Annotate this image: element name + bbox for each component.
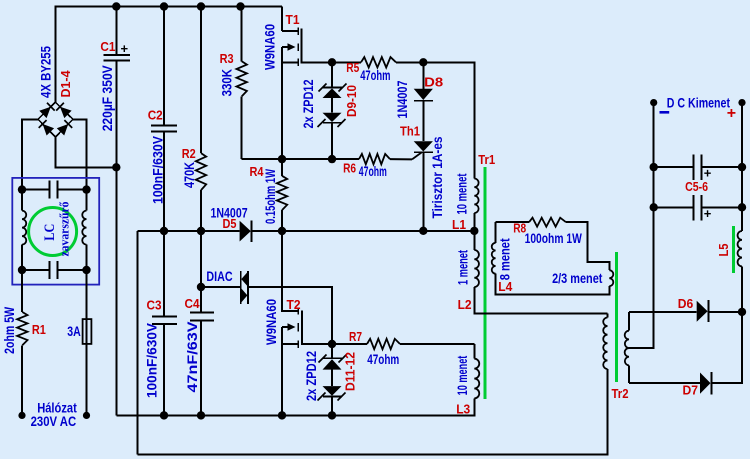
wire C4 bottom — [200, 321, 202, 416]
svg-text:zavarszűrő: zavarszűrő — [58, 202, 72, 257]
node C5 right — [738, 163, 746, 171]
transistor T2 gate lead — [282, 326, 288, 328]
node rail-C1 — [112, 2, 120, 10]
node rail-R3 — [236, 2, 244, 10]
wire C1 bottom — [115, 62, 117, 168]
capacitor C2 — [151, 125, 177, 127]
terminal DC plus — [738, 99, 745, 106]
svg-text:R3: R3 — [220, 51, 234, 66]
wire R2 top — [200, 7, 202, 154]
svg-text:LC: LC — [42, 224, 58, 241]
wire L2 bottom — [474, 287, 607, 314]
wire D12 bottom — [331, 396, 333, 415]
node C3/bottom rail — [160, 411, 168, 419]
resistor R2 — [196, 153, 206, 190]
wire D8 top lead — [422, 62, 424, 89]
capacitor C4 — [190, 312, 214, 314]
node R2/D5 wire — [197, 227, 205, 235]
svg-text:220µF 350V: 220µF 350V — [99, 65, 115, 132]
resistor R1 — [17, 312, 27, 345]
svg-text:C3: C3 — [147, 298, 162, 313]
transistor T1 drain lead — [282, 30, 298, 32]
svg-text:4X BY255: 4X BY255 — [38, 46, 54, 98]
svg-text:100ohm 1W: 100ohm 1W — [525, 230, 583, 246]
wire C2 bottom — [163, 132, 165, 232]
wire L2 top — [473, 231, 475, 250]
bridge rectifier D1-4 diamond — [38, 102, 73, 137]
wire bridge right lead — [73, 118, 87, 120]
node R4 bottom — [278, 227, 286, 235]
node rail-C2 — [160, 2, 168, 10]
resistor R5 — [361, 57, 396, 67]
svg-text:D8: D8 — [424, 75, 443, 90]
node R7 junction — [328, 340, 336, 348]
wire down from D5 row — [137, 231, 139, 455]
zener diode D12 — [323, 386, 342, 396]
svg-text:1N4007: 1N4007 — [394, 80, 410, 118]
wire C2 top — [163, 7, 165, 126]
svg-text:L5: L5 — [716, 244, 731, 257]
diode D8 — [414, 89, 433, 100]
wire left vertical to bottom rail — [115, 167, 117, 415]
capacitor C6 — [654, 206, 694, 208]
LC filter box — [12, 178, 99, 285]
wire top rail — [55, 6, 282, 8]
wire fuse bottom — [86, 344, 88, 416]
node C1/bridge junction — [112, 163, 120, 171]
node R4 top — [278, 155, 286, 163]
wire zener D10 bottom — [331, 123, 333, 159]
wire D5 row left — [138, 230, 240, 232]
wire D6 anode — [629, 311, 697, 313]
capacitor C5 — [654, 166, 694, 168]
wire Th1 gate — [412, 153, 422, 160]
resistor R4 — [277, 176, 287, 210]
wire zener middle 2 — [331, 370, 333, 387]
wire L3 top lead — [473, 344, 475, 359]
wire R2-DIAC — [200, 231, 202, 287]
capacitor LC top — [22, 189, 50, 191]
thyristor Th1 — [414, 141, 433, 151]
svg-text:100nF/630V: 100nF/630V — [144, 322, 160, 398]
wire bottom rail 2 — [138, 369, 608, 455]
wire R4 leads — [281, 159, 283, 176]
wire loop top — [496, 221, 529, 223]
node T2/bottom rail — [278, 411, 286, 419]
node C2/D5 wire — [160, 227, 168, 235]
node zener bottom — [328, 155, 336, 163]
inductor LC right — [82, 211, 86, 245]
svg-text:47ohm: 47ohm — [360, 67, 390, 83]
svg-text:2ohm 5W: 2ohm 5W — [1, 306, 17, 354]
svg-text:C4: C4 — [185, 296, 201, 311]
svg-text:8 menet: 8 menet — [497, 238, 513, 280]
svg-text:+: + — [121, 41, 129, 56]
transistor T1 source lead — [282, 61, 298, 63]
svg-text:47ohm: 47ohm — [359, 163, 387, 179]
wire bridge top lead — [54, 6, 56, 103]
label minus sign — [660, 111, 670, 114]
fuse 3A — [83, 319, 92, 344]
transistor T2 drain lead — [281, 310, 297, 312]
wire T2 source to R7 — [332, 343, 367, 345]
node D6 output — [738, 308, 746, 316]
resistor R7 — [367, 339, 400, 349]
wire R5 to D8 — [396, 61, 423, 63]
transformer core Tr2 — [615, 252, 618, 382]
svg-text:L3: L3 — [456, 402, 470, 417]
node DIAC tee — [197, 283, 205, 291]
svg-text:Tr2: Tr2 — [612, 386, 629, 401]
wire LC to R1 — [21, 270, 23, 312]
svg-text:D7: D7 — [683, 383, 699, 398]
wire D6 cathode — [708, 311, 742, 313]
node LC bottom-left — [18, 266, 26, 274]
diode D6 — [697, 301, 708, 322]
svg-text:C5-6: C5-6 — [685, 179, 708, 194]
node LC top-left — [18, 185, 26, 193]
node LC top-right — [82, 185, 90, 193]
svg-text:D5: D5 — [223, 216, 237, 231]
inductor L4 — [492, 243, 496, 274]
svg-text:10 menet: 10 menet — [454, 173, 470, 214]
svg-text:47ohm: 47ohm — [367, 351, 399, 367]
wire R3 bottom — [241, 96, 243, 159]
wire D11 top — [331, 344, 333, 358]
svg-text:R2: R2 — [182, 146, 196, 161]
svg-text:2/3 menet: 2/3 menet — [552, 270, 603, 286]
inductor core L5 — [732, 226, 735, 273]
svg-text:10 menet: 10 menet — [454, 355, 470, 395]
resistor R8 — [529, 218, 566, 227]
terminal mains left — [18, 412, 25, 419]
zener diode D9 — [323, 86, 342, 88]
diode D4 (bridge lower-right) — [57, 124, 69, 136]
wire R1 bottom — [21, 345, 23, 415]
svg-text:3A: 3A — [67, 323, 81, 339]
svg-text:+: + — [704, 206, 712, 221]
wire R2 bottom — [200, 190, 202, 231]
wire C3 top — [163, 231, 165, 316]
diode D2 (bridge upper-right) — [60, 107, 72, 118]
svg-text:D1-4: D1-4 — [58, 70, 73, 98]
svg-text:D9-10: D9-10 — [344, 85, 359, 117]
node LC bottom-right — [82, 266, 90, 274]
svg-text:1 menet: 1 menet — [454, 250, 470, 285]
wire R7 to L3 — [400, 343, 474, 345]
diode D5 — [240, 221, 251, 242]
capacitor C3 — [152, 315, 177, 317]
svg-text:470K: 470K — [181, 162, 197, 188]
node D12 bottom rail — [328, 411, 336, 419]
node C6 left — [650, 203, 658, 211]
resistor R3 — [237, 61, 247, 96]
wire DIAC right — [248, 287, 332, 344]
wire R6 right — [390, 158, 412, 160]
svg-text:D11-12: D11-12 — [343, 352, 358, 391]
wire D8-Th1 — [422, 101, 424, 142]
inductor Tr2 primary — [603, 318, 607, 370]
wire LC to fuse — [86, 270, 88, 319]
inductor L3 — [474, 359, 479, 399]
inductor L5 — [738, 231, 742, 266]
svg-text:W9NA60: W9NA60 — [261, 24, 277, 70]
wire zener middle — [331, 98, 333, 113]
wire L3 bottom — [116, 398, 474, 415]
transistor T1 gate lead — [282, 46, 288, 48]
zener diode D10 — [323, 113, 342, 122]
winding 2/3 menet — [609, 270, 613, 286]
svg-text:T1: T1 — [286, 12, 300, 27]
wire C1 top — [115, 7, 117, 55]
node C6 right — [738, 203, 746, 211]
wire output minus rail — [629, 103, 654, 348]
svg-text:2x ZPD12: 2x ZPD12 — [303, 351, 319, 401]
wire to L1 top — [423, 62, 474, 178]
node C5 left — [650, 163, 658, 171]
wire Th1 cathode — [422, 152, 424, 231]
svg-text:Tr1: Tr1 — [478, 152, 495, 167]
capacitor C1 — [104, 54, 130, 56]
svg-text:T2: T2 — [287, 297, 301, 312]
terminal mains right — [83, 412, 90, 419]
svg-text:0.15ohm 1W: 0.15ohm 1W — [262, 168, 278, 224]
inductor LC left — [22, 211, 26, 245]
svg-text:R5: R5 — [346, 60, 359, 75]
diode D7 — [700, 373, 711, 394]
wire output plus rail — [741, 103, 743, 231]
wire R4 row left — [282, 158, 359, 160]
svg-text:W9NA60: W9NA60 — [263, 299, 279, 345]
svg-text:47nF/63V: 47nF/63V — [184, 321, 200, 393]
diode D3 (bridge lower-left) — [43, 124, 55, 136]
transistor T1 channel — [302, 29, 333, 63]
node L1-L2 junction — [470, 227, 478, 235]
svg-text:R7: R7 — [349, 329, 362, 344]
wire D7 anode — [629, 382, 700, 384]
wire bridge bottom lead — [55, 136, 116, 167]
wire L1 bottom — [473, 213, 475, 231]
wire Tr2 center tap — [629, 347, 655, 349]
terminal DC minus — [650, 99, 657, 106]
wire T1 source to R5 — [332, 61, 361, 63]
wire DIAC left — [201, 286, 241, 288]
svg-text:D C Kimenet: D C Kimenet — [667, 94, 730, 110]
svg-text:Th1: Th1 — [400, 124, 420, 139]
svg-text:2x ZPD12: 2x ZPD12 — [300, 79, 316, 128]
node T1 source junction — [328, 58, 336, 66]
svg-text:C2: C2 — [148, 108, 163, 123]
resistor R6 — [359, 154, 390, 164]
svg-text:C1: C1 — [100, 39, 115, 54]
wire T2 column — [281, 231, 283, 311]
svg-text:D6: D6 — [678, 296, 694, 311]
svg-text:+: + — [727, 105, 736, 122]
svg-text:L2: L2 — [458, 297, 472, 312]
transformer core Tr1 — [484, 167, 487, 399]
transistor T2 channel — [302, 311, 332, 345]
wire rail corner to T1 — [281, 7, 283, 32]
node rail-R2 — [197, 2, 205, 10]
wire D7 cathode — [713, 312, 742, 383]
svg-text:DIAC: DIAC — [206, 268, 232, 284]
diac DIAC — [240, 271, 242, 304]
svg-text:230V AC: 230V AC — [31, 413, 77, 429]
svg-text:330K: 330K — [219, 69, 235, 96]
svg-text:L4: L4 — [498, 279, 513, 294]
inductor Tr2 secondary — [628, 312, 630, 331]
wire C3 bottom — [163, 324, 165, 415]
wire R3 top — [241, 7, 243, 62]
node Th1 bottom — [419, 227, 427, 235]
wire zener D9 top — [331, 62, 333, 87]
node D8 top — [419, 58, 427, 66]
svg-text:L1: L1 — [452, 217, 466, 232]
transistor T2 source lead — [282, 343, 298, 345]
zener diode D11 — [323, 357, 342, 359]
LC green circle — [29, 208, 77, 256]
wire loop bottom — [496, 274, 610, 295]
wire bridge left lead — [22, 118, 38, 120]
inductor L2 — [474, 250, 479, 287]
wire loop right — [566, 222, 609, 270]
svg-text:R1: R1 — [32, 322, 46, 337]
node C4/bottom rail — [197, 411, 205, 419]
wire D5 row right — [252, 230, 475, 232]
svg-text:R6: R6 — [343, 161, 356, 176]
svg-text:Tirisztor 1A-es: Tirisztor 1A-es — [429, 136, 445, 218]
inductor L1 — [474, 179, 478, 214]
capacitor LC bottom — [22, 269, 50, 271]
diode D1 (bridge upper-left) — [39, 107, 51, 118]
wire DIAC-C4 — [200, 287, 202, 313]
